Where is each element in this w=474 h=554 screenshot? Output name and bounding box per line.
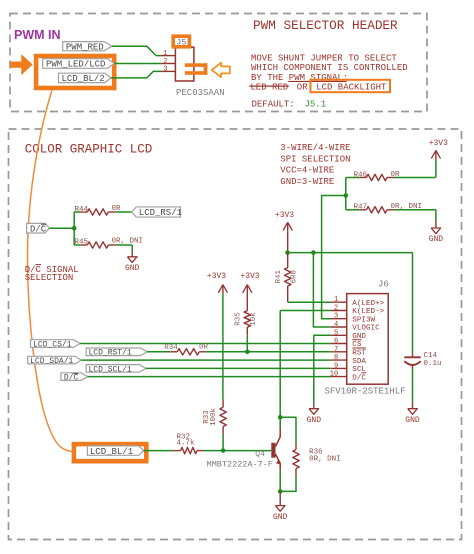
net flag LCD_BL/1 [87,446,143,455]
resistor R41 6R8 [287,253,289,268]
capacitor C14 supply wire [412,253,414,354]
overline on C of lower D/C flag [74,373,79,375]
svg-text:K(LED->: K(LED-> [352,308,384,316]
bus net flag LCD_CS/1 [31,340,81,348]
wire Q4 collector up to K(LED-) net [279,417,281,428]
wire LCD_SDA/1 to J6 pin8 [81,359,331,361]
svg-text:PWM IN: PWM IN [14,28,61,42]
net flag PWM_LED/LCD [43,59,115,69]
junction node RST pullup [245,350,250,355]
wire to R36 top [280,417,296,442]
svg-text:LCD_BL/2: LCD_BL/2 [62,74,105,84]
vertical wire R46-left to R47-left [345,178,347,210]
ground below R47 [435,221,437,228]
wire LCD_SCL/1 to J6 pin9 [146,367,331,369]
horizontal VLOGIC supply wire [288,252,413,254]
orange J5 designator box [173,36,189,47]
svg-text:+3V3: +3V3 [275,211,294,220]
net flag LCD_RS/1 [132,207,181,217]
J6 pin 1 stub [331,301,347,303]
svg-text:LCD_CS/1: LCD_CS/1 [33,340,72,349]
resistor R34 0R [170,351,177,353]
svg-text:+3V3: +3V3 [429,139,448,148]
orange highlight block arrow pointing right [10,54,33,75]
svg-text:0R, DNI: 0R, DNI [309,455,341,463]
resistor R47 0R DNI [346,209,360,211]
svg-text:WHICH COMPONENT IS CONTROLLED: WHICH COMPONENT IS CONTROLLED [251,63,408,73]
svg-text:A(LED+>: A(LED+> [352,300,384,308]
svg-text:Q4: Q4 [255,450,265,459]
overline D/C last char [361,372,366,374]
resistor R35 10k [246,294,248,311]
svg-text:VLOGIC: VLOGIC [352,325,380,333]
net flag LCD_BL/2 [59,73,112,82]
resistor R46 0R [346,177,360,179]
wire R34 to J6 pin7 RST [206,351,331,353]
resistor R45 0R DNI [74,244,80,246]
svg-text:0.1u: 0.1u [424,360,442,368]
wire PWM_RED to J5 pin 1 [112,46,161,55]
bus net flag LCD_SDA/1 [28,356,81,364]
svg-text:LCD_BL/1: LCD_BL/1 [90,447,133,457]
svg-text:1: 1 [334,296,338,304]
wire LCD_RST/1 to R34 [147,351,170,353]
svg-text:6R8: 6R8 [291,270,299,284]
svg-text:8: 8 [334,354,338,362]
svg-text:J5: J5 [176,38,186,48]
svg-text:2: 2 [334,305,338,313]
net flag PWM_RED [63,42,112,51]
svg-text:SDA: SDA [352,358,366,366]
svg-text:1: 1 [163,50,167,58]
wire J6 pin5 GND down [314,335,331,402]
vertical wire joining R44 and R45 [73,212,75,245]
svg-text:R41: R41 [275,270,283,284]
J6 pin 3 stub [331,318,347,320]
J5 pin 2 stub [161,63,175,65]
net flag D/C upper [27,223,50,233]
svg-text:GND: GND [405,416,420,425]
svg-text:0R: 0R [391,171,401,179]
J6 pin 7 stub [331,351,347,353]
J6 pin 8 stub [331,359,347,361]
svg-text:4: 4 [334,321,338,329]
svg-text:LCD_SDA/1: LCD_SDA/1 [30,357,73,366]
overline on C of D/C flag [41,223,46,225]
connector J6 body [347,294,389,385]
wire R45 to ground [131,245,133,252]
svg-text:COLOR GRAPHIC LCD: COLOR GRAPHIC LCD [25,143,153,157]
orange box around LCD BACKLIGHT [311,80,391,92]
wire R35 to RST row [246,335,248,352]
junction node VLOGIC drop [311,250,316,255]
svg-text:10k: 10k [250,312,258,326]
svg-text:LCD_RST/1: LCD_RST/1 [89,349,132,358]
junction node base [221,448,226,453]
junction node collector/R36 top [278,415,283,420]
svg-text:J5.1: J5.1 [305,99,327,109]
svg-text:0R, DNI: 0R, DNI [112,238,144,246]
svg-text:+3V3: +3V3 [240,272,259,281]
orange shunt jumper on J5 pins 2-3 [185,63,208,67]
resistor R32 4.7k [174,450,181,452]
bus net flag D/C lower [61,373,88,381]
orange highlight rectangle around LCD_BL/1 [74,444,146,461]
J6 pin 10 stub [331,376,347,378]
bottom section dashed border box [9,129,462,540]
wire D/C to junction [49,227,74,229]
J6 pin 5 stub [331,334,347,336]
wire Q4 emitter down [279,470,281,491]
J6 pin 9 stub [331,367,347,369]
svg-text:R45: R45 [75,238,89,246]
svg-text:7: 7 [334,346,338,354]
junction node D/C [72,226,77,231]
wire R32 to Q4 base [204,450,271,452]
power +3V3 above R35 [243,285,248,293]
J6 pin 6 stub [331,343,347,345]
svg-text:GND: GND [307,416,322,425]
wire junction down to J6 pin4 VLOGIC [313,253,330,327]
svg-text:SFV10R-2STE1HLF: SFV10R-2STE1HLF [325,387,406,397]
svg-text:10: 10 [330,371,338,379]
underline under PWM SIGNAL: [288,80,346,82]
orange curve from LCD_BL/2 to LCD_BL/1 [27,90,71,451]
svg-text:GND: GND [429,235,444,244]
overline CS [352,339,361,341]
ground below J6 pin5 [313,402,315,409]
resistor R36 0R DNI [295,443,297,450]
svg-text:D/C: D/C [352,374,366,382]
svg-text:VCC=4-WIRE: VCC=4-WIRE [280,166,334,176]
wire R33 to Q4 base node [222,435,224,451]
ground below Q4 [279,491,281,505]
svg-text:DEFAULT:: DEFAULT: [252,99,295,109]
wire LCD_CS/1 to J6 pin6 [80,343,331,345]
svg-text:SPI3W: SPI3W [352,316,375,324]
svg-text:3: 3 [334,313,338,321]
wire C14 to ground [412,369,414,403]
svg-text:PWM SELECTOR HEADER: PWM SELECTOR HEADER [253,18,398,33]
outlined orange arrow pointing left at jumper [212,63,230,77]
svg-text:9: 9 [334,362,338,370]
junction node emitter/R36 bottom [278,489,283,494]
wire from junction to J6 pin3 SPI3W [322,196,346,319]
svg-text:RST: RST [352,350,366,358]
wire +3V3 down to R46 row [435,160,437,178]
svg-text:0R: 0R [199,343,209,351]
svg-text:PWM_RED: PWM_RED [66,42,104,52]
wire +3V3 to VLOGIC row [287,232,289,253]
connector J5 body [175,47,194,81]
svg-text:LCD BACKLIGHT: LCD BACKLIGHT [316,83,387,93]
svg-text:LCD_RS/1: LCD_RS/1 [139,208,182,218]
svg-text:C14: C14 [424,352,438,360]
svg-text:LED RED: LED RED [250,83,288,93]
top section dashed border box [10,14,427,112]
resistor R33 100k [222,399,224,407]
svg-text:R34: R34 [164,344,178,352]
svg-text:GND: GND [125,264,140,273]
svg-text:R46: R46 [354,171,368,179]
wire LCD_BL/2 to J5 pin 3 [111,71,161,78]
transistor Q4 MMBT2222A-7-F [271,443,275,458]
wire R41 to J6 pin1 AKLED [288,301,331,303]
svg-text:J6: J6 [378,279,389,289]
bus net flag LCD_RST/1 [86,348,147,356]
svg-text:D/C: D/C [64,373,79,382]
svg-text:GND: GND [273,513,288,522]
wire collector node to J6 pin2 [280,310,331,312]
wire PWM_LED/LCD to J5 pin 2 [114,63,161,65]
svg-text:MMBT2222A-7-F: MMBT2222A-7-F [207,460,273,470]
power +3V3 above R33 net [218,285,223,293]
J6 pin 4 stub [331,326,347,328]
J6 pin 2 stub [331,310,347,312]
junction node at R41 top [285,250,290,255]
svg-text:PWM_LED/LCD: PWM_LED/LCD [46,60,105,70]
svg-text:2: 2 [163,58,167,66]
svg-text:MOVE SHUNT JUMPER TO SELECT: MOVE SHUNT JUMPER TO SELECT [251,54,397,64]
wire R36 bottom to emitter node [280,476,296,491]
ground below C14 [412,402,414,409]
svg-text:D/C: D/C [30,224,47,234]
wire R47 to ground [435,210,437,221]
svg-text:R47: R47 [354,203,368,211]
capacitor C14 [412,353,414,357]
long wire +3V3 down to R33 [222,294,224,399]
junction node SPI3W branch [344,193,349,198]
wire D/C to J6 pin10 [88,376,331,378]
svg-text:0R, DNI: 0R, DNI [391,203,423,211]
svg-text:3: 3 [163,66,167,74]
svg-text:5: 5 [334,329,338,337]
svg-text:GND=3-WIRE: GND=3-WIRE [280,177,334,187]
wire LCD_BL/1 to R32 [144,450,174,452]
J5 pin 3 stub [161,70,175,72]
svg-text:3-WIRE/4-WIRE: 3-WIRE/4-WIRE [280,143,350,153]
svg-text:R44: R44 [75,206,89,214]
svg-text:SELECTION: SELECTION [25,273,74,283]
power +3V3 for R46 net [431,150,436,158]
svg-text:4.7k: 4.7k [177,440,196,448]
svg-text:100k: 100k [210,408,218,427]
svg-text:6: 6 [334,338,338,346]
J5 pin 1 stub [161,55,175,57]
resistor R44 0R [74,211,80,213]
svg-text:0R: 0R [112,205,122,213]
svg-text:LCD_SCL/1: LCD_SCL/1 [89,365,132,374]
svg-text:OR: OR [297,83,308,93]
overline RST [352,347,366,349]
orange highlight rectangle around PWM_LED/LCD and LCD_BL/2 flags [36,56,114,88]
ground below R45 [131,252,133,256]
power +3V3 above R41 [283,222,288,230]
svg-text:PEC03SAAN: PEC03SAAN [176,88,225,98]
svg-text:R35: R35 [234,312,242,326]
bus net flag LCD_SCL/1 [86,365,146,373]
Q4 emitter [276,454,281,463]
svg-text:SPI SELECTION: SPI SELECTION [280,154,350,164]
svg-text:+3V3: +3V3 [207,272,226,281]
